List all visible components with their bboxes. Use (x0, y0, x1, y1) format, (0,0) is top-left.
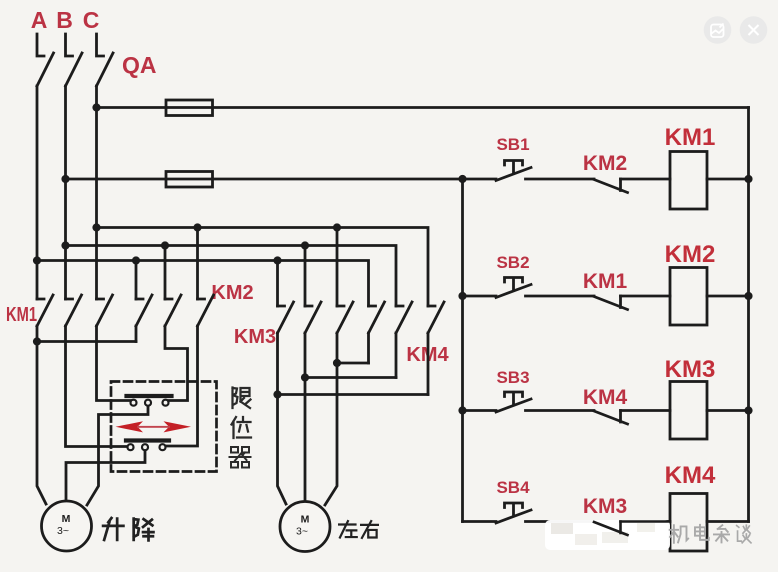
label KM1 main contacts (6, 304, 37, 326)
wire KM3-c1 to motor2 left (278, 333, 287, 504)
svg-text:SB1: SB1 (496, 135, 529, 154)
wire rung1 to coil (621, 178, 671, 181)
contactor KM4 main contact 3 (428, 302, 444, 333)
lower limit switch bar (126, 438, 169, 442)
svg-text:3~: 3~ (57, 525, 69, 537)
node right bus rung2 (744, 292, 752, 300)
node A-bus junction (33, 256, 41, 264)
wire rung2 mid (526, 295, 595, 298)
phase label B (56, 7, 73, 33)
contactor KM4 main contact 2 (396, 302, 412, 333)
svg-text:KM1: KM1 (583, 270, 628, 293)
svg-text:M: M (301, 514, 310, 526)
NC contact KM3 rung4 (594, 522, 628, 536)
phase label A (31, 7, 48, 33)
contactor KM4 main contact 1 (369, 302, 385, 333)
ui button close (740, 16, 768, 44)
node left bus rung3 (458, 406, 466, 414)
node KM3-c2 link junction (301, 373, 309, 381)
pushbutton SB3 (496, 392, 531, 412)
wire drop to KM2 contact 2 (164, 246, 167, 300)
wire rung3 to coil (621, 409, 671, 412)
wire KM1-c3 to upper limit switch (97, 326, 131, 401)
node C-fuse1 junction (92, 103, 100, 111)
wire KM3-c2 to motor2 top (304, 333, 307, 502)
rung 2: label SB2 (496, 253, 529, 272)
svg-text:KM2: KM2 (583, 152, 627, 175)
wire link KM1-c1 to KM2-c1 (37, 340, 136, 343)
wire coil KM1 to right bus (707, 178, 749, 181)
node KM1-c1 link junction (33, 337, 41, 345)
svg-text:KM3: KM3 (234, 326, 276, 348)
label coil KM4 (665, 462, 716, 489)
wire drop to KM3 contact 3 (336, 228, 339, 307)
rung 4 feed wire (463, 520, 497, 523)
coil KM4 (670, 494, 707, 552)
svg-text:KM3: KM3 (583, 495, 627, 518)
contactor KM2 main contact 1 (136, 295, 152, 326)
coil KM2 (670, 268, 707, 326)
label 升降 (103, 518, 153, 540)
label KM4 main contacts (406, 344, 449, 366)
svg-text:KM2: KM2 (665, 241, 716, 268)
wire link KM3-c1 to KM4-c3 (278, 393, 429, 396)
node C-bus junction (92, 223, 100, 231)
watermark blur patch (545, 520, 670, 550)
NC contact KM3 rung4 redrawn over patch (594, 522, 670, 536)
svg-text:C: C (83, 7, 100, 33)
NC contact KM4 rung3 (594, 411, 628, 425)
node bus-B to KM2 drop (161, 241, 169, 249)
wire phase B vertical (64, 86, 67, 299)
wire drop to KM3 contact 1 (276, 261, 279, 307)
node right bus rung3 (744, 406, 752, 414)
contactor KM3 main contact 3 (337, 302, 353, 333)
svg-text:M: M (62, 513, 71, 525)
wire drop to KM2 contact 1 (135, 261, 138, 300)
contactor KM2 main contact 3 (198, 295, 214, 326)
svg-text:A: A (31, 7, 48, 33)
svg-text:KM3: KM3 (665, 356, 716, 383)
wire link KM3-c3 to KM4-c1 (337, 362, 369, 365)
contactor KM3 main contact 1 (278, 302, 294, 333)
svg-text:KM2: KM2 (211, 282, 253, 304)
label KM2 interlock rung1 (583, 152, 627, 175)
contactor KM1 main contact 2 (66, 295, 82, 326)
node bus-B to KM3 drop (301, 241, 309, 249)
pushbutton SB1 (496, 161, 531, 181)
wire KM2-c2 to upper limit switch right (165, 326, 188, 401)
left control bus (461, 179, 464, 522)
rung 1: label SB1 (496, 135, 529, 154)
svg-text:KM4: KM4 (665, 462, 716, 489)
label KM3 interlock rung4 (583, 495, 627, 518)
wire coil KM4 to right bus (707, 520, 749, 523)
label coil KM1 (665, 124, 716, 151)
upper limit switch contact circles (131, 400, 137, 406)
switch QA pole A (37, 34, 54, 86)
lower limit switch contact circles (128, 444, 134, 450)
phase label C (83, 7, 100, 33)
wire KM4-c1 bottom (367, 333, 370, 363)
wire upper limit switch middle to motor1 right (87, 406, 148, 505)
switch QA pole B (66, 34, 83, 86)
contactor KM1 main contact 1 (37, 295, 53, 326)
upper limit switch bar (127, 394, 172, 398)
fuse FU1 (166, 100, 213, 116)
contactor KM1 main contact 3 (97, 295, 113, 326)
contactor KM3 main contact 2 (305, 302, 321, 333)
svg-text:3~: 3~ (296, 526, 308, 538)
wire fuse line 1 (97, 106, 749, 109)
node bus-C to KM2 drop (193, 223, 201, 231)
label KM1 interlock rung2 (583, 270, 628, 293)
motor M2 (280, 502, 330, 552)
node bus-C to KM3 drop (333, 223, 341, 231)
svg-text:QA: QA (122, 52, 157, 78)
wire lower limit switch middle to motor1 top (66, 450, 145, 501)
wire rung1 mid (526, 178, 595, 181)
NC contact KM1 rung2 (594, 296, 628, 310)
node bus-A to KM3 drop (273, 256, 281, 264)
label KM4 interlock rung3 (583, 386, 628, 409)
fuse FU2 (166, 172, 213, 188)
label 左右 (339, 521, 378, 538)
pushbutton SB2 (496, 278, 531, 298)
label coil KM3 (665, 356, 716, 383)
limit travel arrow (116, 421, 192, 432)
svg-text:KM4: KM4 (583, 386, 628, 409)
rung 3: label SB3 (496, 368, 529, 387)
wire bus line C (97, 228, 429, 307)
node KM3-c1 link junction (273, 390, 281, 398)
node B-bus junction (61, 241, 69, 249)
wire fuse line 2 / rung 1 feed (66, 178, 497, 181)
wire coil KM2 to right bus (707, 295, 749, 298)
svg-text:KM1: KM1 (665, 124, 716, 151)
wire rung3 mid (526, 409, 595, 412)
wire rung4 mid (526, 520, 595, 523)
svg-text:SB3: SB3 (496, 368, 529, 387)
svg-text:B: B (56, 7, 73, 33)
coil KM1 (670, 152, 707, 210)
wire KM2-c1 bottom (135, 326, 138, 342)
wire rung2 to coil (621, 295, 671, 298)
wire phase A vertical (36, 86, 39, 299)
wire KM1-c1 to motor1 left (37, 326, 46, 504)
wire bus line A (37, 261, 369, 307)
node bus-A to KM2 drop (132, 256, 140, 264)
wire rung4 to coil (621, 520, 671, 523)
wire coil KM3 to right bus (707, 409, 749, 412)
node B-fuse2 junction (61, 175, 69, 183)
switch QA pole C (97, 34, 114, 86)
wire KM1-c2 to lower limit switch (66, 326, 128, 447)
wire KM3-c3 to motor2 right (325, 333, 337, 505)
contactor KM2 main contact 2 (165, 295, 181, 326)
node left bus rung1 (458, 175, 466, 183)
wire drop to KM2 contact 3 (196, 228, 199, 300)
label KM3 main contacts (234, 326, 276, 348)
node right bus rung1 (744, 175, 752, 183)
coil KM3 (670, 382, 707, 440)
limit switch box (dashed) (111, 382, 217, 472)
rung 2 feed wire (463, 295, 497, 298)
svg-text:SB2: SB2 (496, 253, 529, 272)
rung 4: label SB4 (496, 478, 530, 497)
svg-text:SB4: SB4 (496, 478, 530, 497)
label coil KM2 (665, 241, 716, 268)
wire bus line B (66, 246, 397, 307)
ui button image-edit (704, 16, 732, 44)
watermark text 机电杂谈 (670, 525, 751, 543)
wire drop to KM3 contact 2 (304, 246, 307, 307)
node left bus rung2 (458, 292, 466, 300)
wire KM4-c3 bottom (427, 333, 430, 395)
wire KM2-c3 to lower limit switch right (166, 326, 198, 446)
wire phase C vertical (95, 86, 98, 299)
right control bus (747, 108, 750, 522)
wire link KM3-c2 to KM4-c2 (305, 376, 396, 379)
label KM2 main contacts (211, 282, 253, 304)
label 限位器 (230, 388, 252, 468)
pushbutton SB4 (496, 503, 531, 523)
rung 3 feed wire (463, 409, 497, 412)
NC contact KM2 rung1 (594, 179, 628, 193)
label QA (122, 52, 157, 78)
node KM3-c3 link junction (333, 359, 341, 367)
motor M1 (42, 501, 92, 551)
wire KM4-c2 bottom (395, 333, 398, 378)
svg-text:KM1: KM1 (6, 304, 37, 326)
